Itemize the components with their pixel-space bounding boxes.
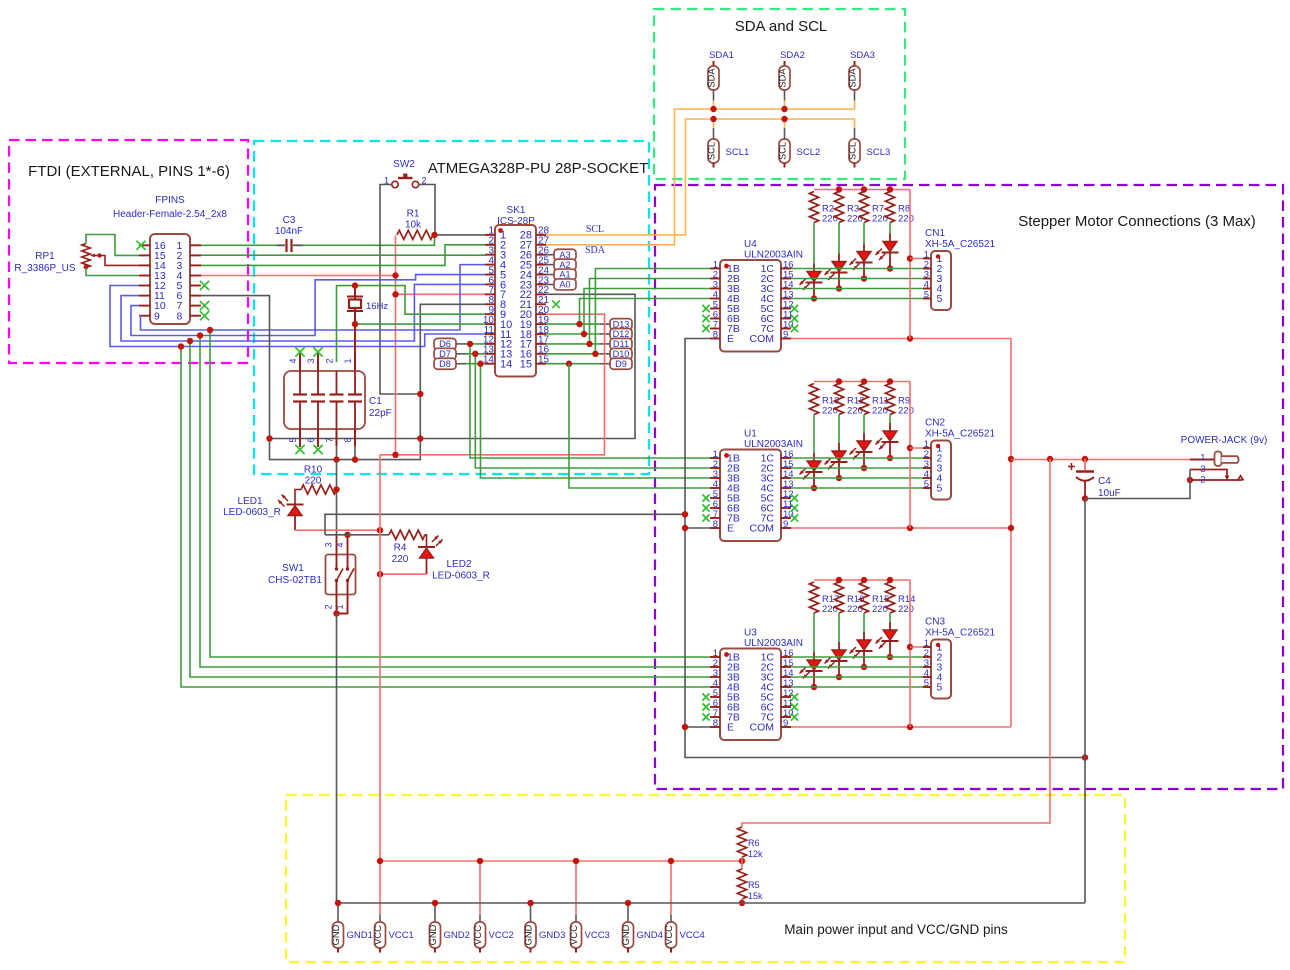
junction LED output [811, 295, 817, 301]
wire R5 to GND bus (red) [741, 899, 743, 903]
wire R8 to LED (green) [889, 223, 891, 234]
junction SCL2 [781, 116, 787, 122]
junction LED output [861, 664, 867, 670]
no-connect X on FPINS pin 7 [200, 301, 209, 310]
no-connect X U1 pin12 [791, 494, 798, 501]
wire U4 VCC bus top (red) [814, 189, 910, 191]
LED under R11 [863, 433, 865, 441]
LED under R7 [863, 244, 865, 252]
node label box D8 [434, 358, 456, 369]
no-connect X U3 pin11 [791, 703, 798, 710]
wire FPINS pin2 to SK1 pin3 (green) [201, 254, 485, 256]
junction tap FTDI9 [207, 327, 213, 333]
svg-text:C1: C1 [369, 396, 382, 407]
node label box D13 [610, 319, 632, 330]
svg-text:COM: COM [750, 333, 775, 345]
no-connect X C1 pin5 [295, 445, 304, 454]
wire SK1 pin18 to D12 (green) [546, 333, 600, 335]
svg-text:Stepper Motor Connections (3 M: Stepper Motor Connections (3 Max) [1018, 213, 1256, 230]
no-connect X U4 pin10 [791, 325, 798, 332]
resistor R4 220 [389, 530, 425, 539]
junction GND2 [432, 900, 438, 906]
pin SCL1 pill [708, 139, 719, 163]
svg-text:GND: GND [331, 924, 341, 945]
junction res top x=890 [887, 378, 893, 384]
wire GND3 riser (gray) [530, 903, 532, 922]
wire U1 4C to CN2 pin5 (green) [791, 487, 931, 489]
wire R14 to LED (green) [889, 613, 891, 622]
wire stub D8 (gray) [456, 363, 466, 365]
wire LED1 to 5V vertical (red) [295, 529, 380, 531]
no-connect X U3 pin12 [791, 693, 798, 700]
wire SDA1 stub (gray) [713, 90, 715, 101]
resistor R9 220 [885, 384, 894, 415]
connector CN3 XH-5A_C26521 body [931, 640, 951, 699]
wire VCC2 riser stub (gray) [479, 915, 481, 922]
wire tap to U3 pin1 1B (green) [210, 330, 710, 657]
wire stub D9 (gray) [600, 363, 610, 365]
pin GND3 pill [525, 922, 536, 948]
wire tap to U3 pin2 2B (green) [200, 336, 710, 668]
no-connect X U1 pin6 [702, 504, 709, 511]
svg-text:104nF: 104nF [275, 226, 303, 237]
pin GND1 pill [333, 922, 344, 948]
junction VCC1 [377, 858, 383, 864]
no-connect X U1 pin11 [791, 504, 798, 511]
junction LED output [861, 465, 867, 471]
svg-text:SDA: SDA [847, 68, 857, 88]
junction GND3 [527, 900, 533, 906]
wire U3 4C to CN3 pin5 (green) [791, 686, 931, 688]
svg-text:LED1: LED1 [237, 496, 262, 507]
no-connect X on SK1 pin 21 [552, 300, 560, 308]
wire SK1 pin25 to A2 (gray) [546, 264, 554, 266]
svg-text:R5: R5 [748, 880, 760, 890]
wire stub D13 (gray) [600, 323, 610, 325]
svg-text:8: 8 [177, 310, 183, 322]
svg-text:FPINS: FPINS [155, 195, 185, 206]
LED under R16 [838, 642, 840, 650]
svg-text:SCL: SCL [706, 142, 716, 160]
wire D6 to SK1 pin12 (green) [466, 343, 485, 345]
wire FPINS pin12 to SK1 pin11 (blue) [110, 286, 485, 347]
capacitor C3 104nF [277, 244, 285, 246]
junction LED output [836, 285, 842, 291]
wire main 9V feed (red) [1011, 459, 1190, 461]
svg-text:D9: D9 [615, 359, 627, 369]
junction 5V T at R1 vertical [392, 452, 398, 458]
wire GND4 riser (gray) [627, 903, 629, 922]
node label box A2 [554, 259, 576, 270]
svg-text:5: 5 [937, 293, 943, 305]
wire C4 to GND bus (gray) [1084, 499, 1086, 904]
svg-text:3: 3 [1200, 464, 1205, 475]
svg-text:U3: U3 [744, 628, 757, 639]
wire SW1 pin4 to R4 (gray) [325, 534, 389, 536]
junction on D-row [581, 331, 587, 337]
resistor R16 220 [834, 582, 843, 613]
node label box A3 [554, 249, 576, 260]
junction LED output [836, 674, 842, 680]
svg-text:9: 9 [783, 519, 788, 530]
svg-text:A0: A0 [559, 280, 570, 290]
U4 pin1 marker [724, 264, 729, 269]
svg-text:8: 8 [713, 329, 718, 340]
svg-text:5: 5 [924, 289, 929, 300]
wire SDA2 stub (gray) [784, 90, 786, 101]
IC socket SK1 ICS-28P body [495, 225, 536, 377]
svg-text:220: 220 [847, 214, 863, 225]
junction res top x=839 [836, 186, 842, 192]
svg-text:8: 8 [713, 718, 718, 729]
resistor R2 220 [809, 192, 818, 223]
resistor R11 220 [859, 384, 868, 415]
svg-text:Main power input and VCC/GND p: Main power input and VCC/GND pins [784, 922, 1008, 937]
svg-text:2: 2 [1200, 475, 1205, 486]
svg-text:3: 3 [306, 358, 316, 363]
region box: Main power (yellow dashed) [286, 795, 1125, 962]
region box: SDA and SCL (green dashed) [654, 9, 905, 179]
svg-text:VCC4: VCC4 [680, 930, 705, 941]
capacitor block C1 22pF body [284, 371, 365, 429]
wire stub D10 (gray) [600, 353, 610, 355]
svg-text:220: 220 [392, 554, 409, 565]
svg-text:U4: U4 [744, 239, 757, 250]
svg-text:8: 8 [713, 519, 718, 530]
wire SCL: SK1 pin28 to SCL bus (orange) [546, 119, 855, 235]
svg-text:220: 220 [898, 214, 914, 225]
junction C1 pin8 GND [352, 456, 358, 462]
svg-text:R_3386P_US: R_3386P_US [14, 263, 75, 274]
svg-text:16Hz: 16Hz [366, 301, 388, 312]
svg-text:R6: R6 [748, 838, 760, 848]
no-connect X U4 pin5 [702, 305, 709, 312]
svg-text:SDA: SDA [777, 68, 787, 88]
connector CN1 XH-5A_C26521 body [931, 251, 951, 310]
svg-text:COM: COM [750, 523, 775, 535]
junction VCC at R6/R5 [739, 858, 745, 864]
wire GND bus (gray) [337, 902, 1086, 904]
wire VCC3 riser (red) [575, 861, 577, 915]
wire FPINS pin11 to SK1 pin6 (blue) [121, 284, 485, 341]
no-connect X U1 pin10 [791, 514, 798, 521]
wire VCC3 riser stub (gray) [575, 915, 577, 922]
junction res top x=839 [836, 577, 842, 583]
svg-text:220: 220 [847, 604, 863, 615]
wire D8 to SK1 pin14 (green) [466, 363, 485, 365]
no-connect X on FPINS pin 5 [200, 281, 209, 290]
LED under R13 [813, 453, 815, 461]
wire SW2 pin1 to GND vertical (gray) [380, 185, 420, 395]
junction VCC4 [668, 858, 674, 864]
wire VCC4 riser stub (gray) [670, 915, 672, 922]
svg-text:SDA: SDA [706, 68, 716, 88]
node label box D7 [434, 348, 456, 359]
wire stub D11 (gray) [600, 343, 610, 345]
junction res top x=890 [887, 186, 893, 192]
wire red vertical at 910 (red) [909, 382, 911, 529]
svg-text:5: 5 [924, 479, 929, 490]
junction R5 GND [739, 900, 745, 906]
svg-text:VCC: VCC [373, 925, 383, 945]
no-connect X U3 pin6 [702, 703, 709, 710]
pin VCC2 pill [475, 922, 486, 948]
region box: FTDI (magenta dashed) [9, 140, 248, 363]
resistor R15 220 [859, 582, 868, 613]
pin GND2 pill [430, 922, 441, 948]
resistor R1 10k [397, 230, 433, 239]
svg-text:ATMEGA328P-PU 28P-SOCKET: ATMEGA328P-PU 28P-SOCKET [428, 160, 649, 177]
junction rail at 459 [1008, 456, 1014, 462]
svg-text:220: 220 [872, 604, 888, 615]
no-connect X C1 pin3 [313, 347, 322, 356]
svg-text:220: 220 [872, 406, 888, 417]
wire FPINS pin4 to 5V vertical (red) [201, 275, 396, 277]
svg-text:22pF: 22pF [369, 408, 392, 419]
svg-text:VCC1: VCC1 [389, 930, 414, 941]
wire GND bus down to SW1 pin3 (gray) [336, 460, 338, 535]
connector FPINS Header-Female-2.54_2x8 [150, 234, 190, 324]
wire VCC2 riser (red) [479, 861, 481, 915]
LED under R9 [889, 423, 891, 431]
pin VCC3 pill [571, 922, 582, 948]
junction LED output [887, 654, 893, 660]
svg-text:E: E [727, 722, 734, 734]
svg-text:VCC: VCC [664, 925, 674, 945]
no-connect X U4 pin11 [791, 315, 798, 322]
svg-text:SDA3: SDA3 [850, 50, 875, 61]
svg-text:VCC2: VCC2 [489, 930, 514, 941]
wire SDA1 to bus (orange) [713, 101, 715, 110]
svg-text:10k: 10k [405, 220, 422, 231]
junction on D-row [477, 361, 483, 367]
wire R12 to LED (green) [838, 415, 840, 444]
wire power rail vertical 1011 (red) [1010, 339, 1012, 728]
wire U3 COM to power rail (red) [791, 726, 1011, 728]
svg-text:SK1: SK1 [507, 205, 526, 216]
svg-text:XH-5A_C26521: XH-5A_C26521 [925, 429, 995, 440]
svg-text:SDA2: SDA2 [780, 50, 805, 61]
svg-text:CN1: CN1 [925, 228, 945, 239]
wire D7 to SK1 pin13 (green) [466, 353, 485, 355]
svg-text:220: 220 [872, 214, 888, 225]
POWER-JACK pin 2 contact [1190, 479, 1242, 481]
svg-text:VCC: VCC [473, 925, 483, 945]
junction LED output [887, 455, 893, 461]
wire stub D6 (gray) [456, 343, 466, 345]
junction at R6 branch [1047, 456, 1053, 462]
svg-text:Header-Female-2.54_2x8: Header-Female-2.54_2x8 [113, 209, 227, 220]
svg-text:14: 14 [500, 359, 512, 371]
svg-text:9: 9 [783, 718, 788, 729]
wire U1 VCC bus top (red) [814, 381, 910, 383]
junction SCL1 [710, 116, 716, 122]
pin GND4 pill [623, 922, 634, 948]
svg-text:220: 220 [305, 476, 322, 487]
svg-text:2: 2 [325, 358, 335, 363]
wire SDA2 to bus (orange) [784, 101, 786, 110]
wire CN3 pin1 (red) [910, 646, 931, 648]
wire SK1 pin17 to D11 (green) [546, 343, 600, 345]
svg-text:GND3: GND3 [539, 930, 565, 941]
svg-text:10uF: 10uF [1098, 488, 1121, 499]
IC U4 ULN2003AIN body [720, 260, 781, 352]
no-connect X U1 pin5 [702, 494, 709, 501]
svg-text:ULN2003AIN: ULN2003AIN [744, 250, 803, 261]
wire U1 1C to CN2 pin2 (green) [791, 457, 931, 459]
svg-text:SDA and SCL: SDA and SCL [735, 18, 828, 35]
junction U1 E [682, 525, 688, 531]
junction CN3 pin1 tap [907, 644, 913, 650]
resistor R7 220 [859, 192, 868, 223]
wire VCC1 riser stub (gray) [379, 915, 381, 922]
LED under R8 [889, 234, 891, 242]
junction CN1 pin1 tap [907, 255, 913, 261]
wire SK1 pin16 to D10 (green) [546, 353, 600, 355]
junction GND crossing at 420 [417, 435, 423, 441]
wire reset node to SK1 pin1 (gray) [435, 234, 486, 236]
svg-text:220: 220 [822, 604, 838, 615]
wire GND1 riser (gray) [337, 903, 339, 922]
wire U4 3C to CN1 pin4 (green) [791, 288, 931, 290]
no-connect X U4 pin12 [791, 305, 798, 312]
junction LED output [887, 265, 893, 271]
wire tap to U3 pin4 4B (green) [181, 347, 710, 688]
node label box D11 [610, 338, 632, 349]
svg-text:5: 5 [937, 682, 943, 694]
LED under R17 [813, 652, 815, 660]
wire GND2 riser (gray) [434, 903, 436, 922]
wire enable branch to ULN E pins (gray) [325, 514, 685, 535]
wire C3 to reset node (green) [303, 235, 435, 245]
junction LED output [836, 475, 842, 481]
svg-text:SCL: SCL [847, 142, 857, 160]
LED under R2 [813, 264, 815, 272]
junction C1 pin7 GND [333, 456, 339, 462]
svg-text:6: 6 [306, 437, 316, 442]
wire U4 E down to U3 and GND run (gray) [685, 339, 1085, 758]
junction 5V at SK1 pin7 [392, 291, 398, 297]
svg-text:LED-0603_R: LED-0603_R [432, 571, 490, 582]
wire R1 left down 5V vertical (red) [395, 236, 397, 455]
wire crystal top to SK1 pin9 (green) [337, 286, 486, 362]
wire SK1 pin12 to U1 input (green) [470, 344, 710, 458]
pin SDA3 pill [854, 61, 856, 66]
svg-text:21: 21 [538, 295, 550, 306]
junction GND1 [335, 900, 341, 906]
node label box D10 [610, 348, 632, 359]
wire red vertical at 910 (red) [909, 190, 911, 339]
CN2 pin1 marker [936, 444, 940, 448]
CN1 pin1 marker [936, 254, 940, 258]
wire SK1 pin20 to 5V rail (red) [380, 314, 605, 455]
svg-text:RP1: RP1 [35, 251, 55, 262]
wire CN1 pin1 (red) [910, 258, 931, 260]
svg-text:SCL2: SCL2 [797, 147, 821, 158]
junction SDA1 [710, 106, 716, 112]
pin SCL3 pill [849, 139, 860, 163]
resistor R10 220 [301, 485, 337, 494]
wire R3 to LED (green) [838, 223, 840, 254]
wire C1 pin8 to GND bus (gray) [354, 446, 356, 460]
wire CN2 pin1 (red) [910, 447, 931, 449]
junction on D-row [592, 351, 598, 357]
wire 5V vertical to VCC bus (red) [379, 455, 381, 915]
no-connect X U3 pin7 [702, 713, 709, 720]
svg-text:12k: 12k [748, 849, 763, 859]
wire U1 2C to CN2 pin3 (green) [791, 467, 931, 469]
junction COM at red vertical 910 [907, 724, 913, 730]
wire U4 COM to power rail (red) [791, 338, 1011, 340]
junction tap FTDI11 [187, 338, 193, 344]
wire stub D12 (gray) [600, 333, 610, 335]
CN3 pin1 marker [936, 643, 940, 647]
junction LED1 5V [377, 527, 383, 533]
wire U4 2C to CN1 pin3 (green) [791, 278, 931, 280]
wire SK1 pin14 to U1 input (green) [481, 364, 711, 478]
wire FPINS pin10 to SK1 pin5 (blue) [131, 275, 485, 336]
svg-text:E: E [727, 333, 734, 345]
LED under R14 [889, 622, 891, 630]
wire SCL2 stub (gray) [784, 128, 786, 139]
wire RP1 bottom to FPINS pin13 (green) [86, 268, 139, 276]
junction VCC3 [573, 858, 579, 864]
svg-text:C4: C4 [1098, 476, 1111, 487]
LED LED1 LED-0603_R [295, 490, 301, 505]
svg-text:220: 220 [898, 604, 914, 615]
svg-text:GND: GND [428, 924, 438, 945]
svg-text:28: 28 [520, 230, 532, 242]
svg-text:SW1: SW1 [282, 563, 304, 574]
svg-text:U1: U1 [744, 429, 757, 440]
wire SK1 pin24 to A1 (gray) [546, 274, 554, 276]
wire FPINS pin3 to SK1 pin2 (green) [201, 245, 485, 266]
svg-text:9: 9 [154, 310, 160, 322]
no-connect X U4 pin6 [702, 315, 709, 322]
no-connect X on FPINS pin 16 [136, 241, 145, 250]
junction on D-row [472, 351, 478, 357]
wire R2 to LED (green) [813, 223, 815, 264]
no-connect X U3 pin10 [791, 713, 798, 720]
junction LED2 5V [377, 571, 383, 577]
wire VCC bus (red) [380, 860, 742, 862]
svg-text:220: 220 [847, 406, 863, 417]
junction CN2 pin1 tap [907, 445, 913, 451]
wire GND: FPINS pin6 to bus to SK1 pin8 (gray) [201, 296, 485, 460]
node label box A1 [554, 269, 576, 280]
wire U3 2C to CN3 pin3 (green) [791, 666, 931, 668]
connector POWER-JACK (9v) symbol [1190, 459, 1215, 461]
wire U4 1C to CN1 pin2 (green) [791, 268, 931, 270]
junction VCC2 [477, 858, 483, 864]
wire SK1 pin23 to A0 (gray) [546, 283, 554, 285]
wire SDA3 stub (gray) [854, 90, 856, 101]
svg-text:XH-5A_C26521: XH-5A_C26521 [925, 239, 995, 250]
svg-text:LED-0603_R: LED-0603_R [223, 507, 281, 518]
svg-text:GND1: GND1 [347, 930, 373, 941]
junction on D-row [586, 341, 592, 347]
svg-text:GND: GND [621, 924, 631, 945]
wire jack pins to C4 (gray) [1085, 470, 1190, 499]
junction SW1 pin4 [344, 532, 350, 538]
wire RP1 wiper to FPINS pin14 (dark red) [100, 256, 140, 266]
junction rail at U1 COM [1008, 525, 1014, 531]
wire U4 4C to CN1 pin5 (green) [791, 298, 931, 300]
svg-text:1: 1 [343, 358, 353, 363]
svg-text:XH-5A_C26521: XH-5A_C26521 [925, 628, 995, 639]
C1 top pin leads [299, 353, 301, 371]
no-connect X C1 pin4 [295, 347, 304, 356]
